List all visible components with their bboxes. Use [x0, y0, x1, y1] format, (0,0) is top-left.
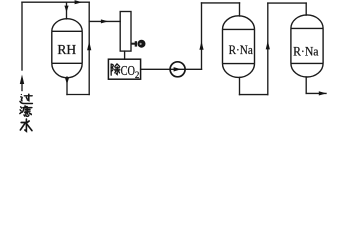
arrow right inside pump [174, 67, 182, 71]
wire RNa2 outlet [305, 77, 307, 93]
arrow down into RH [64, 6, 68, 13]
wire drop into RNa2 [305, 3, 307, 15]
label 滤 (lv) hand-drawn [20, 106, 32, 117]
svg-text:R·Na: R·Na [293, 44, 319, 59]
svg-text:R·Na: R·Na [229, 42, 253, 57]
wire treated water out [306, 92, 326, 94]
wire top span 2 [268, 2, 306, 4]
label 水 (shui) hand-drawn [20, 119, 32, 131]
arrow up riser 1 [199, 41, 203, 50]
wire degasifier feed [89, 20, 120, 22]
wire column to box connector [124, 51, 126, 59]
svg-text:RH: RH [57, 42, 76, 57]
wire drop into RNa1 [239, 3, 241, 16]
box CO2 remover [108, 59, 140, 79]
wire RNa1 outlet [239, 78, 241, 95]
wire filtered-water arrow tail [21, 83, 23, 91]
vessel RH [52, 19, 82, 78]
wire header drop at right [88, 2, 90, 94]
wire riser to RNa2 [267, 3, 269, 95]
wire RH bottom outlet [66, 77, 68, 95]
arrow right outlet [319, 91, 327, 95]
pump [170, 62, 185, 77]
blower pipe [131, 43, 135, 45]
arrow up on RH outlet riser [87, 41, 91, 50]
arrow down RH outlet [65, 77, 69, 84]
arrow up filtered water [20, 75, 24, 85]
arrow right into column [101, 19, 108, 23]
wire riser to RNa1 [201, 3, 203, 69]
wire filtered-water riser [21, 2, 23, 70]
wire RNa1 bottom U [240, 94, 268, 96]
wire RH bottom U [67, 94, 89, 96]
vessel RNa 1 [223, 16, 255, 78]
wire top header [22, 1, 89, 3]
blower fan [138, 40, 146, 48]
arrow right on top header [75, 0, 83, 4]
wire top span 1 [202, 2, 240, 4]
blower flange [135, 41, 137, 46]
wire box to pump to riser [141, 68, 202, 70]
svg-text:CO: CO [121, 63, 136, 78]
wire RH inlet drop [66, 2, 68, 19]
label 除 (chu) hand-drawn [111, 64, 120, 75]
label 过 (guo) hand-drawn [20, 94, 32, 104]
column degasifier tower [120, 12, 131, 52]
svg-text:2: 2 [135, 70, 140, 80]
vessel RNa 2 [291, 15, 323, 77]
arrow up riser 2 [266, 41, 270, 50]
